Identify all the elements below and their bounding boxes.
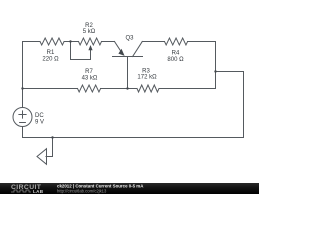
svg-text:R4: R4 xyxy=(172,51,180,57)
svg-text:R7: R7 xyxy=(85,69,93,75)
svg-text:9 V: 9 V xyxy=(35,120,44,126)
svg-text:http://circuitlab.com/c2jk13: http://circuitlab.com/c2jk13 xyxy=(57,188,107,193)
svg-text:LAB: LAB xyxy=(33,189,44,194)
svg-text:R1: R1 xyxy=(47,50,55,56)
svg-text:43 kΩ: 43 kΩ xyxy=(82,76,98,82)
svg-text:172 kΩ: 172 kΩ xyxy=(137,75,157,81)
svg-text:800 Ω: 800 Ω xyxy=(167,57,184,63)
svg-text:5 kΩ: 5 kΩ xyxy=(83,29,96,35)
svg-text:DC: DC xyxy=(35,113,44,119)
svg-text:Q3: Q3 xyxy=(125,36,134,42)
svg-text:220 Ω: 220 Ω xyxy=(42,57,59,63)
